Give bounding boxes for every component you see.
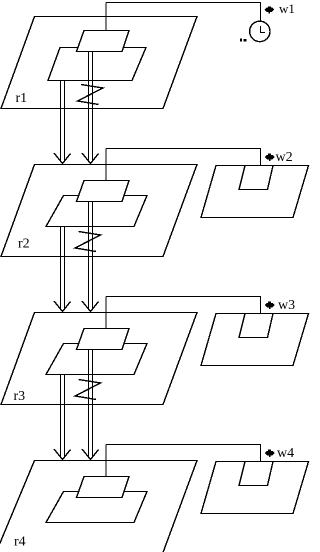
svg-text:r3: r3 (14, 389, 26, 404)
svg-text:w4: w4 (277, 446, 294, 461)
svg-text:r1: r1 (16, 91, 28, 106)
svg-text:w2: w2 (276, 150, 293, 165)
svg-text:w1: w1 (279, 1, 295, 16)
svg-text:r4: r4 (14, 535, 26, 550)
svg-text:w3: w3 (278, 298, 295, 313)
svg-text:r2: r2 (18, 237, 30, 252)
